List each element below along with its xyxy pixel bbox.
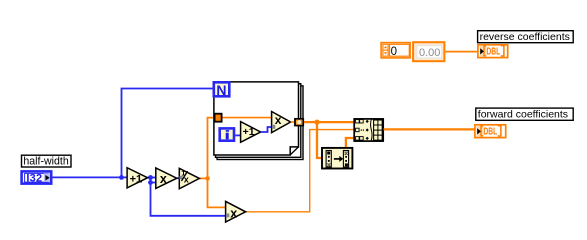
wire orange thick tunnel to build array row1 [304, 121, 354, 123]
wire orange thick reverse array to build array row3 [346, 138, 354, 148]
terminal i [220, 128, 234, 140]
wire blue down to bottom multiply [151, 183, 226, 216]
svg-text:forward coefficients: forward coefficients [478, 109, 568, 121]
outer multiply [156, 168, 177, 189]
wire orange inner multiply to tunnel [291, 121, 295, 123]
wire blue +1 out to multiply [148, 178, 156, 183]
wire blue i to inner +1 [235, 134, 240, 136]
node junction on array wire [314, 120, 319, 125]
outer increment +1 [127, 168, 148, 188]
svg-text:x: x [160, 172, 167, 186]
svg-text:+1: +1 [130, 173, 143, 185]
for-loop front frame [214, 82, 299, 155]
wire orange up to loop left tunnel [208, 118, 214, 179]
svg-text:+1: +1 [243, 126, 255, 138]
node junction after reciprocal [205, 176, 210, 181]
svg-text:x: x [230, 206, 237, 220]
wire orange thick build array out to forward DBL [384, 128, 475, 130]
node junction dots after +1 [148, 175, 153, 180]
reverse 1D array node [322, 148, 352, 169]
svg-text:DBL: DBL [486, 47, 500, 58]
reciprocal 1/x [179, 168, 199, 189]
wire orange bottom multiply out to build array row2 [246, 130, 354, 212]
terminal half-width I32 [22, 171, 52, 184]
grayed numeric 0.00 [413, 42, 444, 61]
wire orange reciprocal out [199, 177, 207, 179]
for-loop folded corner [290, 147, 298, 155]
indicator forward DBL [475, 125, 506, 138]
tunnel loop right (auto-indexing) [295, 119, 303, 126]
for-loop back frame [217, 86, 303, 160]
svg-text:I32: I32 [26, 173, 42, 185]
wire orange thick down to reverse array [317, 122, 321, 158]
inner increment +1 [241, 122, 261, 143]
for-loop middle frame [216, 84, 301, 158]
indicator reverse DBL [478, 45, 508, 58]
svg-text:DBL: DBL [483, 127, 497, 138]
svg-text:x: x [184, 175, 189, 185]
label reverse coefficients [478, 31, 574, 43]
svg-text:0: 0 [391, 46, 397, 58]
wire orange down to bottom multiply top input [208, 178, 226, 207]
bottom multiply [226, 201, 246, 222]
svg-text:N: N [216, 82, 226, 98]
label half-width [22, 155, 72, 167]
label forward coefficients [476, 108, 573, 121]
svg-text:half-width: half-width [23, 155, 68, 167]
svg-text:x: x [275, 113, 282, 127]
build array node [354, 119, 383, 141]
inner multiply [272, 112, 291, 133]
tunnel loop left (solid orange) [215, 114, 222, 122]
terminal N [214, 82, 230, 98]
wire blue multiply to reciprocal [177, 177, 180, 179]
wire orange to reverse DBL [446, 51, 478, 53]
wire blue inner +1 to inner multiply [261, 127, 272, 132]
svg-text:reverse coefficients: reverse coefficients [480, 31, 570, 43]
wire orange tunnel to inner multiply [223, 117, 272, 119]
wire blue up to N terminal [122, 89, 213, 178]
svg-text:0.00: 0.00 [419, 47, 440, 59]
node junction on half-width wire [119, 175, 124, 180]
numeric constant 0 [381, 43, 410, 58]
wire blue from half-width to +1 [53, 176, 128, 178]
